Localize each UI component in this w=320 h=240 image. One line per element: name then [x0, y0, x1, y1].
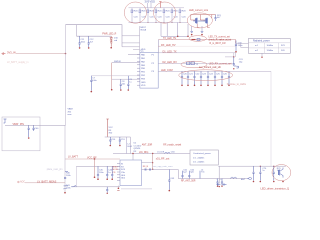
op-amp U1 body — [140, 52, 158, 88]
svg-text:ANT_50R: ANT_50R — [142, 144, 153, 147]
svg-text:LED_current_srcs: LED_current_srcs — [189, 9, 209, 12]
wire drop to diode pair — [218, 166, 220, 183]
svg-text:TX_LED_HV: TX_LED_HV — [163, 38, 177, 40]
capacitor CV1 — [109, 137, 116, 146]
svg-text:SO: SO — [121, 166, 124, 168]
svg-text:CC1101: CC1101 — [134, 145, 142, 147]
junction dots base rail — [177, 36, 179, 38]
U1 left pin stubs — [137, 55, 140, 86]
capacitor BR0 — [252, 166, 254, 182]
capacitor row c23 — [200, 71, 207, 86]
wire emitter drops — [192, 26, 202, 31]
svg-text:see_app_note_swra: see_app_note_swra — [153, 165, 173, 168]
svg-text:ADC: ADC — [20, 181, 25, 184]
wire LV to U2 — [65, 158, 120, 160]
svg-text:VBAT: VBAT — [68, 108, 74, 111]
capacitor CR4 down — [221, 179, 223, 187]
off-page arrow LV_BATT_MEAS — [17, 181, 19, 183]
cap cluster B under W2 — [225, 53, 243, 70]
wire battery — [5, 124, 66, 126]
wire into U1 pin left 1 — [128, 54, 140, 56]
wire red drop — [94, 159, 96, 176]
svg-text:RF_N: RF_N — [143, 166, 149, 168]
wire RF1 — [113, 153, 190, 155]
svg-text:SWDIO: SWDIO — [114, 61, 121, 63]
svg-text:LV_BATT: LV_BATT — [68, 156, 79, 159]
capacitor C11 — [79, 36, 86, 49]
capacitor CR3 down — [216, 179, 218, 187]
resistor R207 branch — [179, 8, 186, 23]
wire V1 lower — [64, 125, 66, 192]
stub RX_LED_HV — [158, 45, 160, 47]
wire transistor source L drops — [197, 24, 210, 28]
capacitor row c22 — [193, 71, 200, 86]
capacitor row c20 — [181, 71, 188, 86]
resistor R201 branch — [131, 8, 138, 23]
wire into U1 pin left 3 — [91, 75, 140, 77]
resistor RB1 — [64, 171, 71, 178]
LED value label — [114, 38, 119, 42]
U2 left pins — [117, 164, 120, 181]
capacitor row c26 — [221, 71, 228, 86]
resistor RV1 — [127, 137, 133, 154]
junction LV wire — [94, 158, 96, 160]
table stub below — [261, 53, 263, 56]
resistor R202 branch — [139, 8, 146, 23]
capacitor shunt x169 — [168, 169, 170, 190]
svg-text:x01_RF_out: x01_RF_out — [156, 157, 170, 160]
switch SW1 — [64, 185, 77, 190]
wire vertical V1 — [65, 25, 67, 126]
svg-text:CSn: CSn — [121, 172, 125, 174]
svg-text:GND: GND — [141, 82, 146, 84]
capacitor C8 — [120, 79, 126, 91]
capacitor row c24 — [207, 71, 214, 86]
LED D1 — [110, 36, 113, 48]
svg-text:LED_RX_current_set: LED_RX_current_set — [209, 63, 232, 66]
junction 3V3/vertical — [65, 53, 67, 55]
svg-text:fit_close_to_LEDs: fit_close_to_LEDs — [227, 83, 247, 86]
capacitor BR2 — [273, 166, 282, 183]
capacitor CR2 up — [188, 169, 195, 178]
svg-text:RX_LED_HV: RX_LED_HV — [161, 44, 176, 47]
svg-text:check_R_value_at_tst: check_R_value_at_tst — [209, 39, 232, 42]
capacitor CL1 — [97, 166, 105, 180]
wire stub into table — [236, 44, 248, 48]
capacitor row c25 — [214, 71, 221, 86]
wire rail bottom — [71, 186, 120, 188]
capacitor row c21 — [187, 71, 194, 86]
svg-text:RF_match_netwk: RF_match_netwk — [163, 144, 182, 147]
inductor hook — [231, 177, 237, 178]
capacitor row c27 — [228, 71, 230, 86]
wire transistor top feeds — [191, 15, 212, 21]
capacitor CB2 — [32, 125, 39, 131]
diode pair — [216, 183, 226, 186]
capacitor CR1 up — [181, 169, 187, 178]
capacitor C12 — [88, 36, 95, 49]
off-page arrow 3V3 — [2, 53, 6, 55]
wire rail mid — [76, 165, 120, 167]
capacitor C9 — [127, 76, 133, 91]
wire vertical right long — [270, 71, 272, 166]
svg-text:RF_ANT_50R: RF_ANT_50R — [181, 180, 196, 183]
wire RF2 — [142, 170, 179, 179]
capacitor CL2 — [106, 166, 113, 180]
wire U2 pin y162.7 — [142, 162, 153, 164]
net label stubs — [148, 3, 152, 8]
wire into U1 pin left 4 — [112, 78, 140, 80]
wire into U1 pin left 2 — [112, 62, 140, 64]
resistor R204 branch — [155, 8, 162, 23]
wire left link — [75, 166, 77, 187]
svg-text:m1 +10dBm: m1 +10dBm — [193, 157, 205, 159]
wire bottom rail — [129, 22, 189, 24]
markup ellipse 3 transistors — [187, 13, 212, 28]
markup ellipse 2 — [154, 2, 176, 23]
box battery — [2, 117, 40, 151]
IC U2 body — [120, 160, 142, 186]
table box1 — [248, 39, 290, 54]
transistor Q1 — [193, 18, 197, 24]
svg-text:VDD: VDD — [150, 0, 156, 3]
svg-text:VDD: VDD — [141, 85, 146, 87]
svg-text:10dBm: 10dBm — [267, 45, 274, 47]
svg-text:L3_6n8: L3_6n8 — [157, 151, 165, 153]
power arrow — [159, 2, 161, 8]
wire RF1 drop to U2 — [132, 154, 134, 161]
junction RF1 — [152, 153, 153, 154]
svg-text:pwr: pwr — [64, 187, 68, 190]
svg-text:BLM: BLM — [128, 146, 133, 148]
svg-text:LV_BATT_supply_in: LV_BATT_supply_in — [7, 61, 29, 64]
antenna symbol — [247, 177, 251, 180]
wire rail drop — [129, 137, 131, 154]
junction dots bottom rail — [132, 21, 181, 24]
svg-text:VCC: VCC — [109, 127, 114, 129]
svg-text:VCC_RF: VCC_RF — [87, 156, 97, 159]
svg-text:LED_TX_current_set: LED_TX_current_set — [209, 36, 231, 39]
wire red vertical 3V3A — [111, 63, 113, 90]
inductor LR1 — [200, 169, 205, 178]
svg-text:LED_COM: LED_COM — [161, 69, 173, 72]
svg-text:D1_LED_TX: D1_LED_TX — [163, 51, 177, 54]
svg-text:3V3_IN: 3V3_IN — [7, 50, 16, 54]
glyphs on RF2 — [145, 168, 151, 170]
markup ellipse 4 — [189, 36, 206, 42]
svg-text:place_near_pin: place_near_pin — [47, 168, 63, 171]
capacitor CB1 — [28, 125, 30, 139]
resistor R205 branch — [163, 8, 170, 23]
gnd Q1 — [190, 31, 193, 34]
wire junction drop — [152, 154, 154, 170]
NRST vertical — [139, 26, 141, 52]
wire base rail — [161, 23, 188, 37]
svg-text:VDDA: VDDA — [140, 28, 146, 31]
crystal in ellipse 5 — [187, 62, 190, 65]
svg-text:LED_driver_transistor_Q: LED_driver_transistor_Q — [261, 186, 290, 190]
capacitor C7 — [90, 76, 97, 93]
capacitor right of Q pair — [212, 15, 222, 22]
power arrow VCC — [106, 119, 108, 137]
capacitor CA — [235, 41, 243, 53]
svg-text:VBAT_PIN: VBAT_PIN — [13, 123, 25, 126]
svg-text:see_current_calc_sht: see_current_calc_sht — [199, 66, 221, 69]
resistor RB2 — [64, 185, 71, 194]
connector T symbol — [4, 119, 7, 123]
svg-text:R_is_0R47_1W: R_is_0R47_1W — [210, 43, 227, 45]
wire VCC rail — [105, 136, 131, 138]
svg-text:C_ant: C_ant — [216, 178, 222, 181]
wire W4 — [158, 70, 271, 72]
svg-text:PWR_LED_R: PWR_LED_R — [102, 34, 116, 36]
wire 3V3 — [16, 53, 66, 55]
svg-text:MISO: MISO — [113, 166, 119, 168]
svg-text:MOSI: MOSI — [113, 169, 119, 171]
table grid lines — [248, 43, 290, 54]
wire W2 — [158, 53, 235, 57]
wire W1 stub down to U1 — [158, 40, 160, 53]
resistor R206 branch — [171, 8, 178, 23]
wire corner drop to cap rail — [76, 25, 78, 37]
svg-text:Conducted_power: Conducted_power — [193, 152, 211, 155]
markup ellipse 1 — [124, 2, 146, 23]
wire RF3 — [178, 178, 247, 180]
U2 bottom pins — [118, 186, 152, 189]
svg-text:QFN20: QFN20 — [134, 148, 142, 150]
wire top rail — [129, 7, 185, 9]
capacitor CL4 bottom — [106, 187, 108, 194]
capacitor BR1 — [259, 166, 267, 183]
svg-text:SCK: SCK — [121, 169, 126, 171]
wire cap rail — [77, 35, 112, 37]
wire MEAS — [25, 182, 65, 184]
wire bottom right — [218, 165, 285, 167]
markup ellipse 6 — [179, 70, 233, 81]
resistor in ellipse 4 — [192, 39, 196, 41]
wires to NRST column — [122, 36, 140, 50]
markup ellipse 7 — [272, 165, 291, 181]
wire top horizontal to LED branch — [66, 25, 123, 47]
capacitor CL3 — [111, 166, 113, 180]
svg-text:D2_LED_RX: D2_LED_RX — [163, 61, 178, 64]
transistor Q3 — [279, 168, 284, 183]
transistor Q2 — [198, 18, 207, 24]
table box2 — [190, 150, 218, 165]
markup ellipse 5 — [181, 61, 207, 68]
gnd Q2 — [201, 31, 204, 34]
svg-text:m2 +12dBm: m2 +12dBm — [193, 162, 205, 164]
svg-text:12dBm: 12dBm — [267, 50, 274, 52]
svg-text:Radiated_power: Radiated_power — [253, 39, 270, 42]
wire W1 — [159, 40, 236, 44]
wire W3 — [158, 62, 232, 64]
capacitor CV2 — [119, 137, 126, 146]
resistor R203 branch — [147, 8, 154, 23]
svg-text:ANT: ANT — [241, 178, 246, 181]
